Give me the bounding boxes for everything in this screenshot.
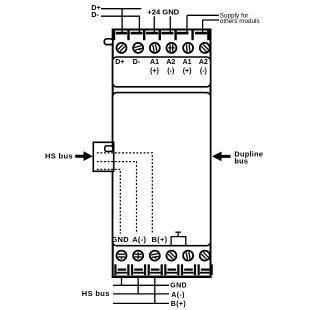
label HS bus (left)	[45, 151, 73, 160]
label B(+) (bottom plate)	[152, 235, 168, 244]
label HS bus (bottom)	[82, 289, 110, 298]
svg-text:others moduls: others moduls	[220, 18, 260, 25]
wire B+ bottom	[113, 278, 169, 304]
bottom terminal clamp B4	[164, 264, 179, 275]
bottom terminal clamp B6	[198, 264, 213, 275]
label A1 (terminal 5)	[183, 59, 192, 66]
label A2 (terminal 4)	[166, 59, 175, 66]
dashed wire B+ (HS bus to terminal B3)	[97, 153, 153, 234]
termination jumper T	[171, 232, 186, 246]
wire GND supply	[169, 16, 171, 32]
label GND (bottom wire)	[170, 283, 187, 290]
svg-text:A2: A2	[199, 59, 208, 66]
module bottom edge (thick)	[112, 276, 212, 278]
bottom terminal clamp B1	[114, 264, 129, 275]
bottom terminal screw B5	[183, 251, 193, 261]
label A(-) (bottom wire)	[171, 292, 184, 299]
HS bus connector	[93, 142, 113, 171]
svg-text:A(-): A(-)	[132, 235, 146, 244]
svg-text:GND: GND	[112, 235, 130, 244]
svg-text:A2: A2	[166, 59, 175, 66]
bottom terminal screw B2	[133, 251, 143, 261]
svg-text:HS bus: HS bus	[45, 151, 73, 160]
svg-text:A1: A1	[183, 59, 192, 66]
top terminal screw T1	[117, 43, 127, 53]
bottom terminal clamp B2	[131, 264, 146, 275]
wire GND bottom	[113, 278, 169, 285]
bottom terminal screw B6	[200, 251, 210, 261]
wire A- bottom	[113, 278, 169, 294]
label (+) terminal 5	[183, 68, 192, 75]
dashed wire GND (HS bus to terminal B1)	[97, 169, 121, 233]
bottom terminal screw B1	[117, 251, 127, 261]
bottom terminal screw B3	[150, 251, 160, 261]
top terminal screw T3	[150, 43, 160, 53]
svg-text:B(+): B(+)	[171, 301, 186, 308]
svg-text:B(+): B(+)	[152, 235, 168, 244]
label (+) terminal 3	[150, 68, 159, 75]
middle front plate	[113, 93, 211, 246]
top label plate	[113, 57, 211, 87]
label D- external	[91, 10, 99, 19]
top terminal screw T5	[183, 43, 193, 53]
label +24 GND external	[147, 8, 179, 17]
svg-text:bus: bus	[234, 157, 248, 166]
top terminal clamp T6	[191, 30, 207, 41]
HS bus connector key	[105, 146, 113, 152]
top terminal clamp right wall	[207, 30, 209, 41]
wire supply for others 2	[203, 20, 219, 32]
wire supply for others 1	[187, 15, 219, 32]
label D+ (terminal 1)	[115, 59, 124, 66]
bottom terminal screw B4	[166, 251, 176, 261]
bottom terminal clamp B5	[181, 264, 196, 275]
svg-text:HS bus: HS bus	[82, 289, 110, 298]
wire D+	[101, 9, 141, 32]
label A2 (terminal 6)	[199, 59, 208, 66]
top terminal screw T2	[133, 43, 143, 53]
label (-) terminal 4	[167, 68, 174, 75]
svg-text:(+): (+)	[183, 68, 192, 75]
svg-text:(-): (-)	[167, 68, 174, 75]
latch tab top-left	[104, 39, 113, 45]
top terminal screw T6	[200, 43, 210, 53]
module left edge segment in connector	[112, 142, 114, 146]
label D+ external	[91, 3, 101, 12]
module body outline	[113, 30, 211, 277]
svg-text:A1: A1	[150, 59, 159, 66]
label B(+) (bottom wire)	[171, 301, 186, 308]
label A(-) (bottom plate)	[132, 235, 146, 244]
bottom terminal clamp B3	[148, 264, 163, 275]
svg-text:GND: GND	[170, 283, 187, 290]
top terminal clamp T1	[113, 30, 127, 41]
dashed wire A- (HS bus to terminal B2)	[97, 162, 137, 234]
label (-) terminal 6	[200, 68, 207, 75]
top terminal screw T4	[166, 43, 176, 53]
label D- (terminal 2)	[133, 59, 141, 66]
top terminal clamp T4	[159, 30, 174, 41]
Dupline bus arrow	[212, 152, 231, 162]
top terminal clamp T2	[127, 30, 142, 41]
HS bus arrow	[75, 151, 93, 161]
label A1 (terminal 3)	[150, 59, 159, 66]
wire +24	[153, 16, 155, 32]
wire D-	[101, 16, 140, 32]
svg-text:D-: D-	[133, 59, 141, 66]
top terminal clamp T5	[174, 30, 188, 41]
top terminal clamp T3	[143, 30, 158, 41]
label Supply for others moduls	[220, 12, 260, 25]
label Dupline bus	[234, 149, 263, 165]
label GND (bottom plate)	[112, 235, 130, 244]
svg-text:A(-): A(-)	[171, 292, 184, 299]
svg-text:D+: D+	[115, 59, 124, 66]
svg-text:(+): (+)	[150, 68, 159, 75]
svg-text:+24 GND: +24 GND	[147, 8, 179, 17]
svg-text:(-): (-)	[200, 68, 207, 75]
svg-text:D-: D-	[91, 10, 99, 19]
